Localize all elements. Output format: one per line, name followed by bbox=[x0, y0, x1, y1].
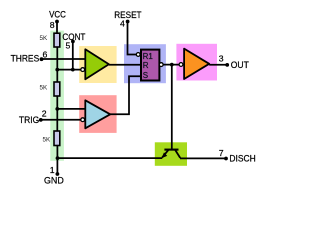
svg-text:3: 3 bbox=[219, 54, 224, 64]
svg-text:6: 6 bbox=[42, 49, 47, 59]
svg-text:1: 1 bbox=[50, 165, 55, 175]
svg-text:8: 8 bbox=[50, 20, 55, 30]
svg-text:5K: 5K bbox=[39, 35, 48, 42]
svg-text:TRIG: TRIG bbox=[19, 115, 39, 125]
svg-text:5K: 5K bbox=[39, 85, 48, 92]
svg-text:THRES: THRES bbox=[11, 54, 40, 64]
svg-text:OUT: OUT bbox=[231, 60, 249, 70]
svg-text:GND: GND bbox=[44, 175, 64, 185]
svg-text:5: 5 bbox=[66, 41, 71, 51]
svg-text:DISCH: DISCH bbox=[229, 154, 255, 164]
svg-text:2: 2 bbox=[42, 108, 47, 118]
svg-text:S: S bbox=[143, 71, 148, 80]
svg-text:VCC: VCC bbox=[49, 10, 66, 20]
svg-text:RESET: RESET bbox=[114, 10, 142, 20]
svg-text:7: 7 bbox=[219, 148, 224, 158]
svg-text:5K: 5K bbox=[42, 136, 51, 143]
svg-text:4: 4 bbox=[120, 19, 125, 29]
svg-text:R1: R1 bbox=[143, 52, 154, 61]
svg-text:R: R bbox=[143, 61, 149, 70]
